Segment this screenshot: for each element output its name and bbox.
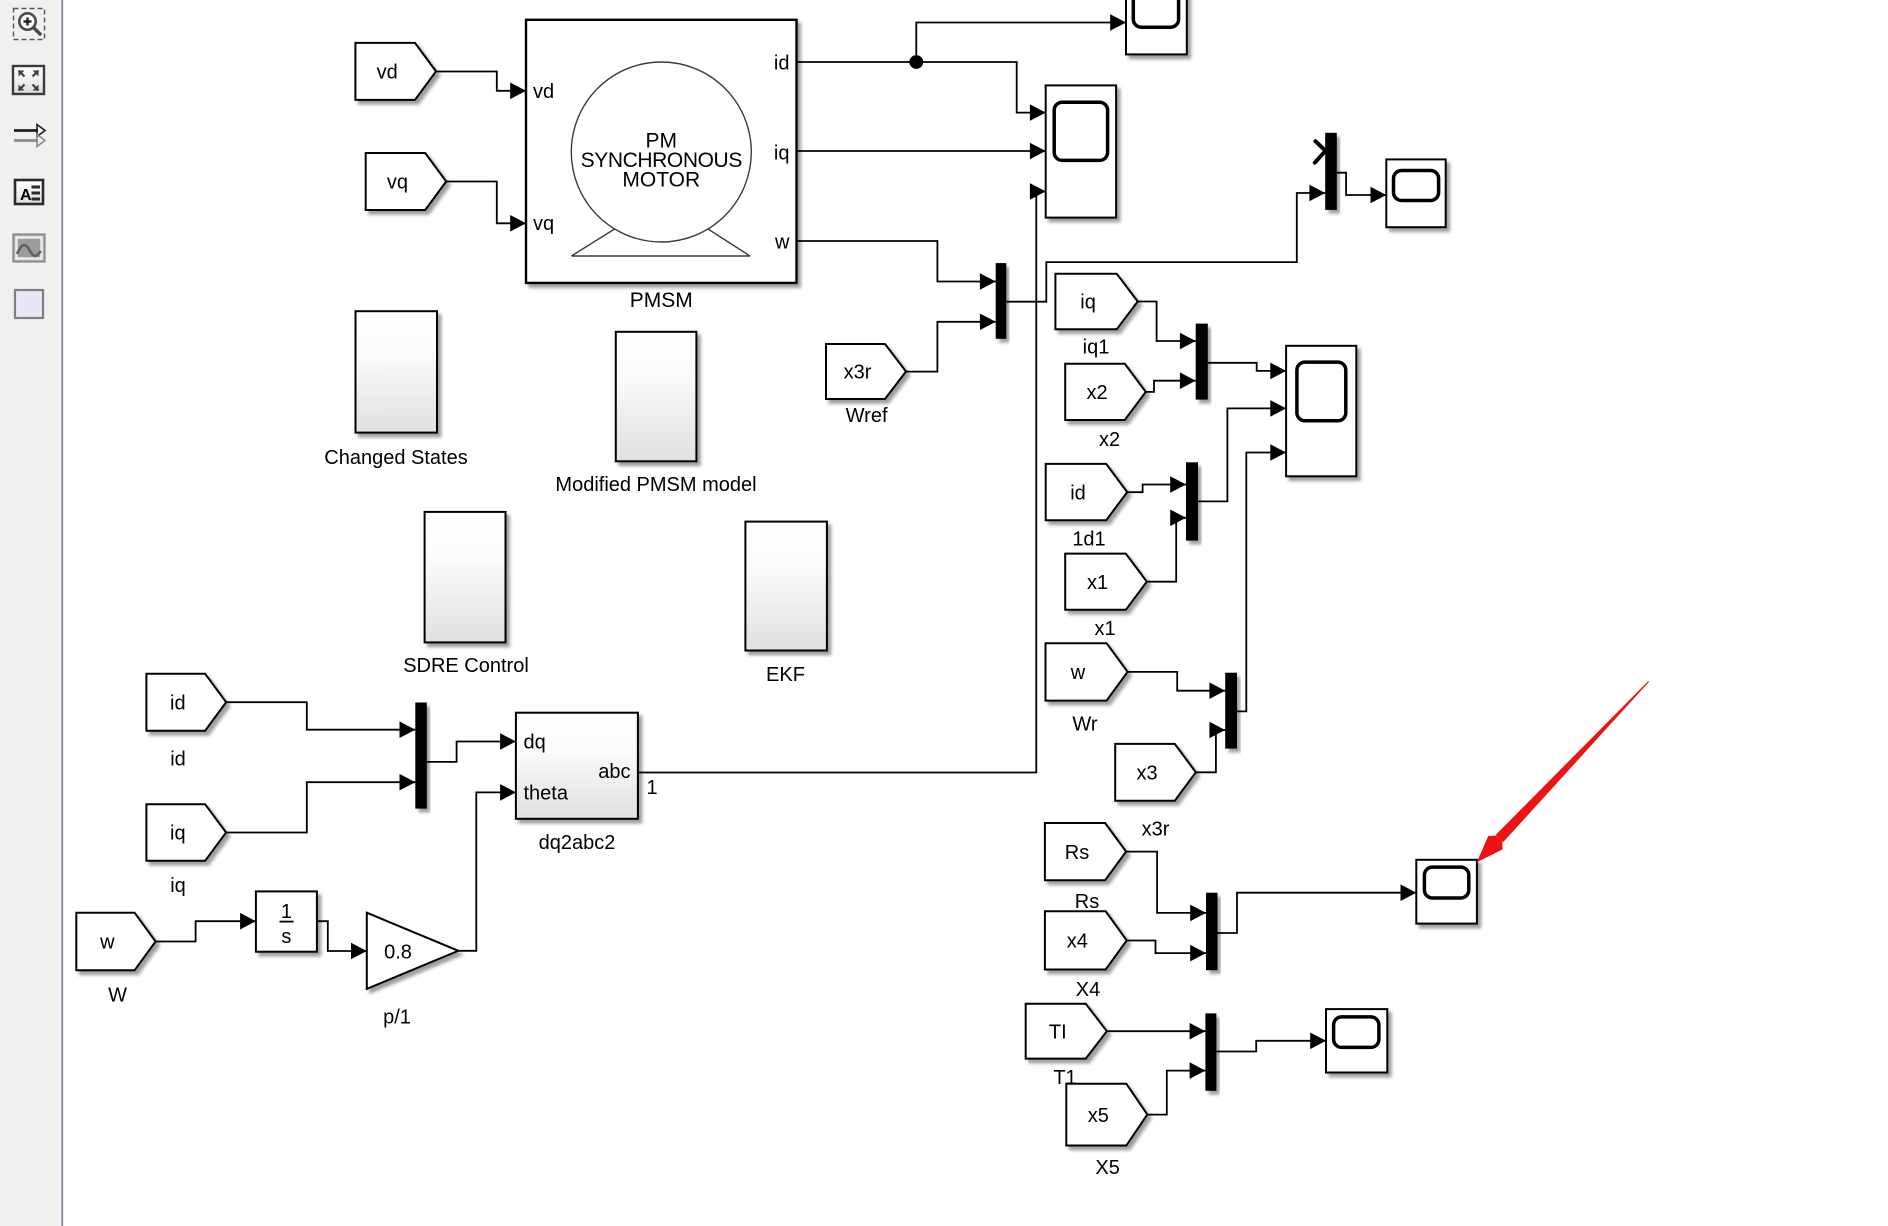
svg-text:id: id	[774, 53, 790, 75]
svg-text:x5: x5	[1088, 1105, 1109, 1127]
svg-text:TI: TI	[1049, 1021, 1067, 1043]
svg-text:Wr: Wr	[1072, 713, 1098, 735]
svg-text:Modified PMSM model: Modified PMSM model	[555, 474, 756, 496]
svg-text:iq: iq	[170, 875, 186, 897]
svg-text:x2: x2	[1086, 382, 1107, 404]
svg-text:X5: X5	[1095, 1157, 1119, 1179]
svg-text:x3r: x3r	[844, 362, 872, 384]
svg-text:x4: x4	[1067, 931, 1088, 953]
svg-text:vq: vq	[533, 213, 554, 235]
svg-text:id: id	[170, 692, 186, 714]
svg-text:iq1: iq1	[1083, 337, 1110, 359]
svg-text:vq: vq	[387, 172, 408, 194]
svg-text:A: A	[20, 187, 32, 204]
svg-text:EKF: EKF	[766, 664, 805, 686]
svg-text:vd: vd	[377, 62, 398, 84]
svg-text:W: W	[108, 985, 127, 1007]
svg-text:Changed States: Changed States	[324, 447, 467, 469]
svg-text:MOTOR: MOTOR	[622, 169, 700, 192]
svg-text:dq2abc2: dq2abc2	[539, 832, 616, 854]
svg-text:PMSM: PMSM	[630, 289, 693, 312]
svg-text:1d1: 1d1	[1072, 529, 1105, 551]
svg-text:1: 1	[281, 901, 292, 923]
svg-text:w: w	[99, 932, 115, 954]
svg-text:theta: theta	[524, 783, 569, 805]
svg-text:iq: iq	[170, 823, 186, 845]
svg-text:X4: X4	[1076, 979, 1100, 1001]
svg-text:w: w	[1070, 662, 1086, 684]
svg-text:x2: x2	[1099, 429, 1120, 451]
svg-text:iq: iq	[1080, 292, 1096, 314]
svg-text:0.8: 0.8	[384, 941, 412, 963]
svg-text:x1: x1	[1094, 618, 1115, 640]
svg-text:s: s	[281, 926, 291, 948]
svg-text:Wref: Wref	[846, 405, 888, 427]
svg-text:Rs: Rs	[1065, 842, 1089, 864]
svg-text:Rs: Rs	[1075, 891, 1099, 913]
svg-text:1: 1	[647, 777, 658, 799]
svg-text:SDRE Control: SDRE Control	[403, 655, 529, 677]
svg-text:w: w	[774, 232, 790, 254]
svg-text:dq: dq	[524, 732, 546, 754]
svg-text:x3r: x3r	[1142, 819, 1170, 841]
svg-text:abc: abc	[598, 761, 630, 783]
svg-text:vd: vd	[533, 81, 554, 103]
svg-text:x1: x1	[1087, 572, 1108, 594]
svg-text:iq: iq	[774, 143, 790, 165]
svg-text:id: id	[170, 749, 186, 771]
svg-text:id: id	[1070, 482, 1086, 504]
svg-text:p/1: p/1	[383, 1007, 411, 1029]
svg-text:x3: x3	[1136, 763, 1157, 785]
